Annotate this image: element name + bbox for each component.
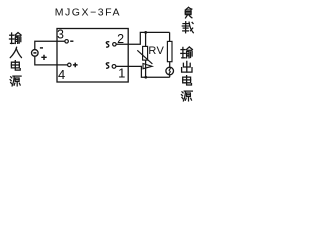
junction dot top <box>144 31 147 34</box>
svg-text:3: 3 <box>57 28 64 42</box>
label 输入电源 (input power), vertical <box>10 33 22 86</box>
terminal 3 circle <box>65 40 69 44</box>
minus sign at source <box>40 47 43 49</box>
internal contact squiggle at terminal 1 <box>106 63 109 68</box>
svg-text:MJGX−3FA: MJGX−3FA <box>55 7 121 19</box>
load resistor leads <box>169 32 171 77</box>
load resistor body <box>167 41 172 61</box>
junction dot bottom <box>144 76 147 79</box>
wire: terminal 1 to load branch (bottom) <box>116 66 170 77</box>
wire: terminal 2 to load branch (top) <box>116 32 169 44</box>
wire: source bottom to terminal 4 <box>35 56 68 65</box>
terminal 1 circle <box>112 65 116 69</box>
output AC source <box>166 67 174 75</box>
plus sign pin 4 <box>73 63 78 68</box>
terminal 4 circle <box>68 63 72 67</box>
varistor diagonal arrow shaft <box>137 50 152 64</box>
svg-text:1: 1 <box>118 66 125 81</box>
label 负载 (load), vertical <box>182 7 193 32</box>
wire: source top to terminal 3 <box>35 41 65 50</box>
terminal 2 circle <box>113 43 117 47</box>
varistor arrowhead <box>143 64 152 69</box>
plus sign at source <box>41 55 46 60</box>
label 输出电源 (output power), vertical <box>181 47 193 101</box>
varistor RV body <box>143 46 148 60</box>
input DC source B1 <box>32 50 39 57</box>
svg-text:RV: RV <box>148 45 164 57</box>
svg-text:4: 4 <box>58 67 65 82</box>
SSR module box U1 <box>57 29 128 83</box>
internal contact squiggle at terminal 2 <box>106 42 109 47</box>
minus sign pin 3 <box>70 40 73 42</box>
varistor RV leads <box>145 32 147 77</box>
